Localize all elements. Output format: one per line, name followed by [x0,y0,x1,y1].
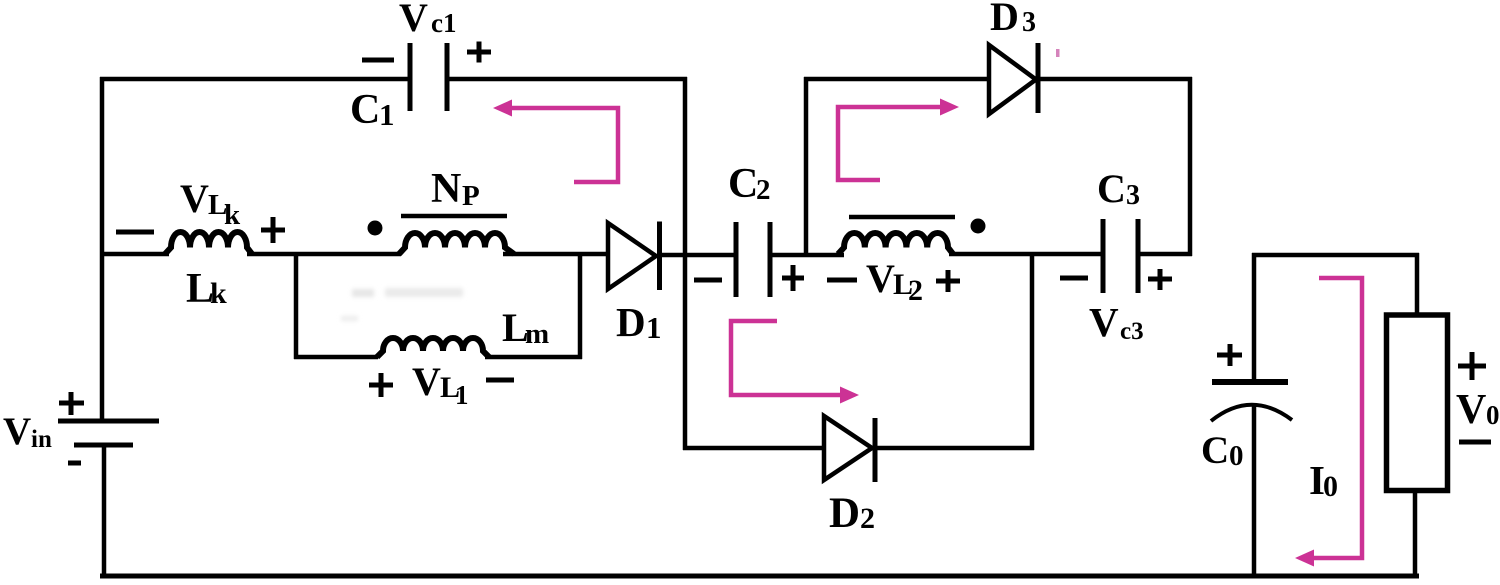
wire junction vertical left of Lm [294,252,299,359]
svg-text:V: V [1456,387,1486,433]
stray gray smudge [341,288,463,321]
inductor Lm [377,338,489,357]
label C1 [350,87,395,133]
minus Lk [116,230,154,235]
wire top right of C1 to node [446,77,687,82]
minus VL2 [827,278,857,283]
label D3 [990,0,1036,39]
wire top left horizontal [100,77,412,82]
label VLk [180,176,241,231]
svg-text:V: V [1089,299,1119,345]
label NP [431,166,480,212]
svg-text:V: V [399,0,428,40]
label Vin [3,410,52,453]
minus Vin [68,461,81,466]
plus C0 [1217,344,1242,366]
label D2 [829,490,875,537]
diode D1 [608,222,660,291]
label VL1 [412,359,469,410]
svg-text:in: in [31,426,52,453]
svg-text:V: V [3,410,31,453]
wire VL2 to C3 [949,252,1104,257]
wire D3 top left [804,77,990,82]
label C3 [1097,166,1140,211]
wire D2 row right [877,446,1034,451]
diode D2 [824,416,875,482]
label VL2 [866,256,923,307]
wire load upper vertical [1415,253,1420,317]
wire D1 cathode to C2 [661,253,737,258]
svg-text:C: C [728,161,758,207]
svg-text:V: V [412,359,441,404]
plus VL2 [936,270,960,292]
wire C0 upper vertical [1252,253,1257,381]
wire D2 row left [683,446,825,451]
svg-text:c1: c1 [431,8,456,38]
wire load lower vertical [1413,489,1418,577]
plus Lk [261,217,285,243]
wire battery lower vertical [102,444,107,577]
current arrow loop C1 [493,100,618,183]
svg-text:D: D [990,0,1019,39]
wire C3 to right vertical [1136,252,1192,257]
svg-text:0: 0 [1229,440,1244,472]
wire D3 top right [1040,77,1192,82]
current arrow I0 [1295,278,1362,567]
wire C0 lower vertical [1252,406,1257,577]
wire output top [1252,253,1419,258]
plus Vin [59,392,84,415]
wire left vertical [100,77,105,422]
wire C2 to VL2 [769,253,844,258]
minus C2 [694,278,722,283]
capacitor C1 [410,43,447,111]
label I0 [1309,457,1338,503]
capacitor C0 [1211,382,1292,421]
svg-text:0: 0 [1323,470,1338,503]
wire vertical right of D2 loop [1030,252,1035,450]
winding VL2 [838,233,953,254]
label Lm [502,305,549,350]
svg-text:3: 3 [1022,7,1036,38]
label D1 [616,299,662,345]
winding VL2 overline [849,215,955,220]
wire Lm branch right [485,355,582,360]
svg-text:D: D [616,299,646,345]
current arrow loop D3 [838,99,959,181]
resistor load V0 [1387,315,1448,491]
label C2 [728,161,771,207]
wire main row seg1 [100,252,169,257]
wire vertical right of Lm [578,252,583,359]
wire D3 loop right vertical [1188,77,1193,256]
minus C3 [1060,276,1088,281]
svg-text:V: V [180,176,209,221]
svg-text:c3: c3 [1120,318,1144,345]
svg-text:C: C [1097,166,1126,211]
svg-text:k: k [224,199,241,231]
capacitor C3 [1103,219,1138,293]
svg-text:C: C [350,87,380,133]
label Vc1 [399,0,456,40]
current arrow loop D2 [731,321,859,404]
wire main row seg2 [247,252,401,257]
plus V0 [1458,352,1486,380]
label V0 [1456,387,1500,433]
wire node vertical D1-D2 [683,77,688,450]
wire Lm branch left [294,355,378,360]
wire main row seg3 [503,252,608,257]
svg-text:3: 3 [1126,180,1140,211]
dot primary [368,221,383,236]
svg-text:2: 2 [908,274,923,307]
winding NP overline [401,214,507,219]
inductor Lk [165,232,252,254]
svg-text:2: 2 [756,174,771,206]
label C0 [1201,429,1244,472]
svg-text:1: 1 [379,97,395,132]
plus C3 [1148,269,1172,290]
minus V0 [1459,440,1491,445]
diode D3 [989,43,1038,114]
svg-text:N: N [431,166,461,212]
plus VL1 [369,373,393,397]
svg-text:m: m [525,318,549,350]
svg-text:1: 1 [455,380,469,410]
wire bottom rail [100,574,1419,579]
winding NP [399,233,514,254]
plus C1 [467,42,491,63]
plus C2 [782,265,804,291]
stray pink mark [1056,49,1060,57]
svg-text:C: C [1201,429,1229,472]
capacitor C2 [736,222,770,297]
svg-text:k: k [210,277,227,310]
wire D3 loop left vertical [804,77,809,256]
dot secondary [971,219,986,234]
minus VL1 [486,378,514,383]
svg-text:D: D [829,490,860,537]
label Vc3 [1089,299,1144,345]
minus C1 [362,58,394,63]
svg-text:V: V [866,256,895,301]
battery Vin [58,421,159,445]
svg-text:P: P [462,180,480,212]
svg-text:2: 2 [860,502,875,535]
label Lk [186,266,227,312]
svg-text:1: 1 [646,310,662,345]
svg-text:0: 0 [1486,400,1500,430]
